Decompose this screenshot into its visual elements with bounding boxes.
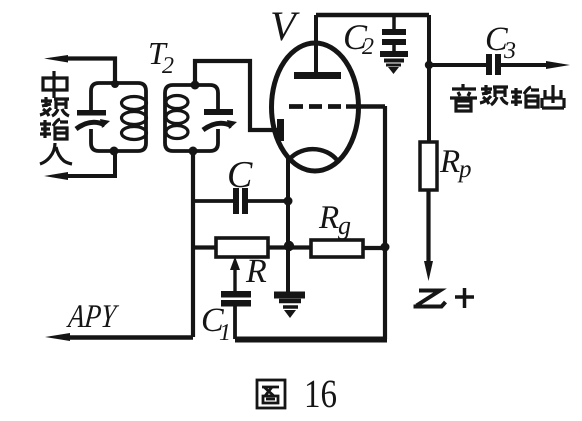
wire input bottom	[60, 151, 115, 176]
svg-text:R: R	[318, 200, 339, 236]
wire grid return vertical	[383, 106, 387, 339]
node T2 top	[191, 81, 200, 90]
svg-text:2: 2	[162, 53, 174, 79]
capacitor tank left curved plate	[76, 122, 105, 129]
coil L1	[122, 97, 147, 110]
arrow input top	[44, 55, 68, 63]
tube plate	[294, 72, 341, 79]
node C right	[284, 197, 293, 206]
node cathode-R	[284, 241, 294, 251]
capacitor C plates	[233, 188, 239, 214]
wire Rg right	[363, 246, 385, 250]
capacitor C wires	[193, 199, 288, 203]
ground cathode	[274, 292, 305, 299]
tube cathode lead	[286, 156, 290, 292]
label 乙+	[414, 288, 475, 308]
wire grid feed	[195, 61, 278, 130]
svg-text:p: p	[457, 156, 472, 183]
svg-text:APY: APY	[65, 299, 120, 335]
svg-text:V: V	[270, 4, 300, 50]
label 音频输出	[450, 84, 564, 111]
svg-text:C: C	[227, 154, 253, 196]
tank L1 loop	[91, 83, 146, 151]
caption 图	[257, 380, 285, 408]
resistor R	[216, 238, 268, 257]
capacitor C2 lead	[392, 15, 396, 29]
coil T2 secondary	[166, 96, 188, 109]
wire APY	[63, 335, 193, 340]
wire input top	[60, 59, 115, 84]
node C3 junction	[425, 61, 433, 69]
capacitor T2 top plate	[204, 109, 233, 115]
capacitor C3 plates	[486, 54, 492, 75]
wire grid return left vertical	[191, 151, 195, 337]
tube plate lead	[314, 15, 318, 72]
resistor Rg	[311, 240, 363, 257]
tube grid dashes	[289, 104, 341, 109]
label 中频输入	[40, 71, 72, 164]
arrow input bottom	[44, 172, 68, 180]
node tank top	[111, 80, 119, 88]
capacitor C1 plates	[221, 291, 251, 298]
svg-text:16: 16	[304, 371, 337, 416]
capacitor tank left top plate	[77, 110, 106, 116]
node Rg right	[381, 243, 390, 252]
tube grid lead	[346, 104, 385, 109]
resistor R wires	[193, 245, 311, 249]
svg-text:2: 2	[362, 34, 374, 60]
wire C3 out	[501, 63, 553, 67]
arrow output	[546, 61, 570, 69]
node T2 bottom	[189, 147, 198, 156]
svg-text:R: R	[245, 253, 267, 290]
svg-text:3: 3	[503, 38, 516, 64]
svg-text:g: g	[338, 211, 351, 240]
tube cathode	[288, 149, 337, 161]
capacitor C2 plates	[382, 29, 406, 35]
tube grid cap bar	[277, 119, 284, 141]
wire B+	[426, 190, 430, 266]
wire top rail	[316, 13, 429, 17]
arrow R wiper	[233, 266, 236, 291]
ground C2	[392, 45, 396, 51]
arrow APY	[45, 333, 70, 341]
wire to C3	[429, 63, 486, 67]
capacitor T2 curved plate	[203, 123, 232, 130]
capacitor C1 lead	[233, 306, 237, 339]
resistor Rp	[420, 142, 437, 190]
wire bottom rail	[235, 337, 387, 343]
svg-text:1: 1	[219, 320, 231, 346]
wire plate rail right	[427, 15, 431, 142]
tube V envelope	[272, 43, 359, 171]
arrow B+	[424, 261, 433, 281]
node tank bottom	[110, 147, 119, 156]
svg-text:R: R	[439, 144, 460, 180]
transformer T2 secondary loop	[165, 85, 218, 151]
